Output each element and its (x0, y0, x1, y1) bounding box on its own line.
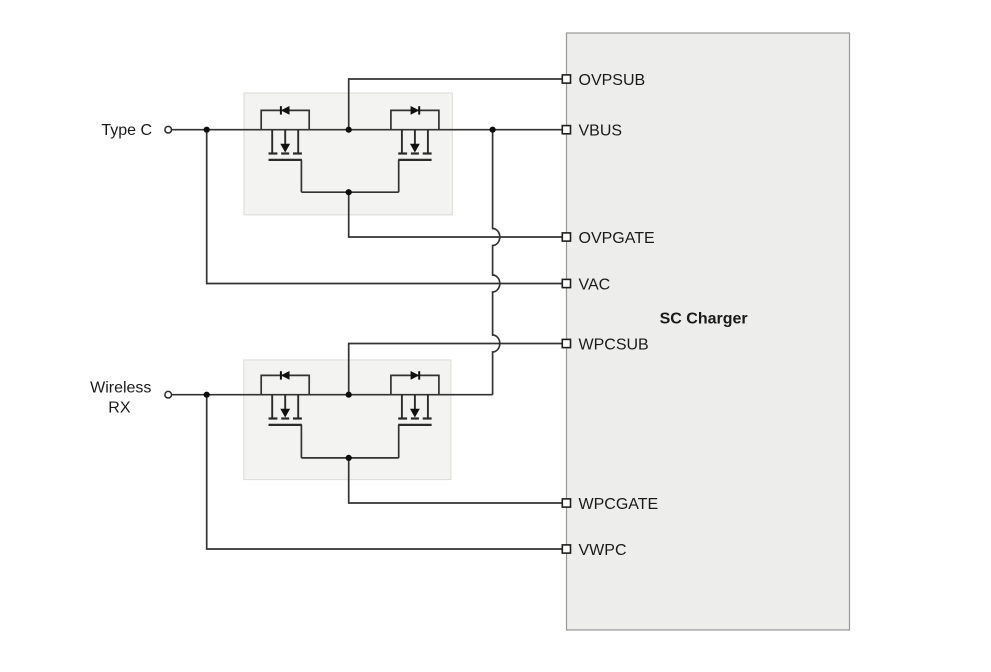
wire: VAC net (207, 130, 563, 284)
gate lead Q4 (398, 425, 400, 458)
svg-text:Wireless: Wireless (90, 380, 151, 397)
body diode Q4 (411, 371, 420, 380)
svg-text:VBUS: VBUS (579, 123, 623, 140)
junction: WPC gate node (346, 455, 352, 461)
wire: OVPGATE net (349, 192, 563, 237)
gate lead Q1 (300, 160, 302, 192)
wire: VWPC net (207, 395, 563, 549)
pin VBUS (562, 123, 622, 140)
svg-text:WPCGATE: WPCGATE (579, 496, 659, 513)
junction: Wireless RX tap (204, 392, 210, 398)
wire: WPCGATE net (349, 458, 563, 503)
SC Charger block U1 (567, 33, 850, 630)
pin OVPGATE (562, 230, 654, 247)
nmos Q2 (398, 130, 431, 160)
nmos Q3 (269, 395, 302, 425)
pin OVPSUB (562, 72, 645, 89)
wire: Type C rail to VBUS (172, 129, 563, 131)
body diode Q3 (281, 371, 290, 380)
wire: OVP common gate bus (301, 191, 398, 193)
junction: OVP common source (346, 127, 352, 133)
body diode Q1 (281, 106, 290, 115)
junction: VBUS junction (490, 127, 496, 133)
nmos Q1 (269, 130, 302, 160)
body diode loop Q3 (261, 375, 309, 394)
label: Wireless RX (90, 380, 151, 417)
svg-text:WPCSUB: WPCSUB (579, 336, 649, 353)
svg-text:VAC: VAC (579, 276, 611, 293)
WPC FET pair enclosure (244, 360, 451, 480)
pin VAC (562, 276, 610, 293)
pin WPCGATE (562, 496, 658, 513)
svg-text:RX: RX (108, 400, 131, 417)
wire: WPCSUB net (349, 344, 563, 395)
svg-text:VWPC: VWPC (579, 542, 627, 559)
terminal: Wireless RX input (165, 391, 172, 398)
body diode loop Q4 (391, 375, 439, 394)
junction: OVP gate node (346, 189, 352, 195)
wire: VBUS to wireless rail (with hops) (493, 130, 500, 395)
gate lead Q2 (398, 160, 400, 192)
pin WPCSUB (562, 336, 648, 353)
body diode Q2 (411, 106, 420, 115)
body diode loop Q2 (391, 110, 439, 129)
wire: OVPSUB net (349, 79, 563, 130)
pin VWPC (562, 542, 626, 559)
svg-text:Type C: Type C (101, 122, 152, 139)
svg-text:SC Charger: SC Charger (660, 311, 748, 328)
svg-text:OVPGATE: OVPGATE (579, 230, 655, 247)
svg-text:OVPSUB: OVPSUB (579, 72, 646, 89)
wire: Wireless RX rail (172, 394, 493, 396)
gate lead Q3 (300, 425, 302, 458)
body diode loop Q1 (261, 110, 309, 129)
junction: WPC common source (346, 392, 352, 398)
terminal: Type C input (165, 126, 172, 133)
wire: WPC common gate bus (301, 457, 398, 459)
nmos Q4 (398, 395, 431, 425)
OVP FET pair enclosure (244, 93, 452, 215)
junction: Type C tap (204, 127, 210, 133)
